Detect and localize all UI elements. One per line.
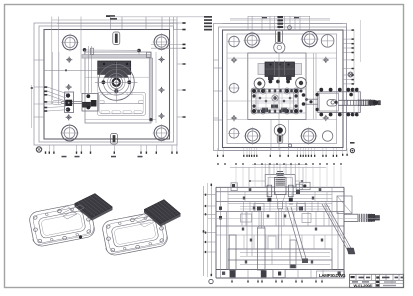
svg-text:LAMP30.DWG: LAMP30.DWG [319,273,346,278]
svg-text:W-01-2008: W-01-2008 [354,283,373,288]
